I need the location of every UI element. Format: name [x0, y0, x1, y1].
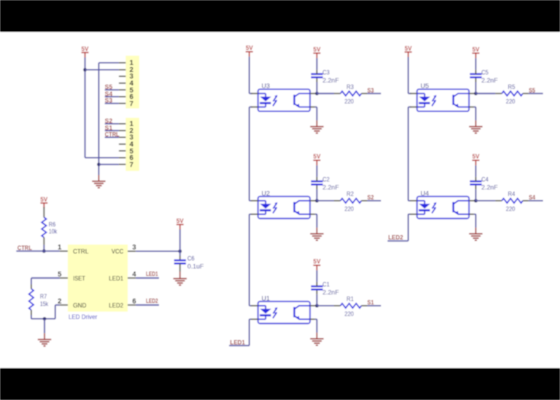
svg-text:S1: S1 [367, 300, 374, 307]
svg-text:R4: R4 [508, 191, 516, 198]
svg-text:5V: 5V [313, 154, 321, 161]
svg-text:VCC: VCC [112, 249, 124, 256]
svg-text:15k: 15k [40, 301, 49, 308]
svg-text:5V: 5V [40, 196, 48, 203]
svg-text:R1: R1 [347, 296, 355, 303]
svg-text:LED1: LED1 [146, 271, 158, 278]
svg-text:2.2nF: 2.2nF [481, 77, 497, 84]
svg-text:LED2: LED2 [109, 303, 124, 310]
svg-text:ISET: ISET [73, 276, 85, 283]
svg-text:220: 220 [506, 206, 516, 213]
svg-text:LED1: LED1 [230, 339, 245, 346]
svg-text:R7: R7 [40, 294, 47, 301]
svg-text:C4: C4 [481, 177, 488, 184]
svg-text:U4: U4 [421, 190, 430, 197]
svg-text:CTRL: CTRL [73, 249, 89, 256]
svg-text:C1: C1 [323, 282, 330, 289]
svg-text:C2: C2 [323, 177, 330, 184]
svg-text:10k: 10k [49, 229, 58, 236]
svg-text:LED Driver: LED Driver [69, 314, 98, 321]
svg-text:U2: U2 [262, 190, 271, 197]
svg-text:220: 220 [345, 206, 355, 213]
svg-text:220: 220 [506, 99, 516, 106]
svg-text:CTRL: CTRL [105, 132, 120, 139]
svg-text:U3: U3 [262, 83, 271, 90]
svg-text:R3: R3 [347, 84, 355, 91]
svg-text:S4: S4 [529, 195, 536, 202]
svg-text:R2: R2 [347, 191, 355, 198]
svg-text:2.2nF: 2.2nF [481, 185, 497, 192]
svg-text:C3: C3 [323, 69, 330, 76]
svg-text:0.1uF: 0.1uF [187, 264, 203, 271]
svg-text:LED2: LED2 [146, 298, 158, 305]
svg-text:R6: R6 [49, 221, 56, 228]
svg-text:S3: S3 [105, 98, 113, 105]
svg-text:GND: GND [73, 303, 87, 310]
svg-text:U1: U1 [262, 295, 271, 302]
svg-text:2.2nF: 2.2nF [323, 185, 339, 192]
svg-text:S5: S5 [529, 88, 536, 95]
svg-text:LED2: LED2 [388, 235, 403, 242]
svg-text:220: 220 [345, 99, 355, 106]
svg-text:U5: U5 [421, 83, 430, 90]
svg-text:7: 7 [130, 101, 134, 108]
svg-text:220: 220 [345, 311, 355, 318]
svg-text:1: 1 [130, 60, 134, 67]
svg-text:S3: S3 [367, 88, 374, 95]
svg-text:5V: 5V [472, 154, 480, 161]
svg-text:LED1: LED1 [109, 276, 124, 283]
svg-text:S2: S2 [367, 195, 374, 202]
svg-text:2.2nF: 2.2nF [323, 290, 339, 297]
svg-text:R5: R5 [508, 84, 516, 91]
svg-text:C5: C5 [481, 69, 488, 76]
svg-text:7: 7 [130, 162, 134, 169]
svg-text:5V: 5V [176, 218, 184, 225]
svg-text:2.2nF: 2.2nF [323, 77, 339, 84]
svg-text:C6: C6 [187, 256, 194, 263]
svg-text:1: 1 [58, 245, 62, 252]
